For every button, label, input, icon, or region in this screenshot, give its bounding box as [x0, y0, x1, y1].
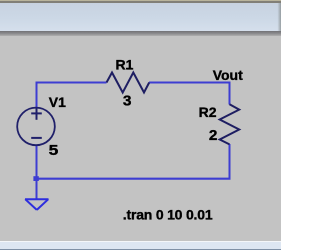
V1 plus sign vertical bar [36, 108, 38, 120]
window title bar [0, 3, 281, 31]
resistor R1 zigzag body [107, 73, 150, 93]
toolbar bottom shadow band [0, 31, 281, 36]
V1 plus sign horizontal bar [31, 112, 42, 114]
ground symbol [25, 199, 49, 210]
status bar top highlight [0, 241, 281, 242]
svg-text:V1: V1 [49, 94, 66, 110]
voltage source V1 circle [17, 108, 55, 146]
V1 minus sign [31, 137, 42, 139]
wire: top horizontal right segment (R1 right lead to Vout corner) [149, 82, 231, 84]
svg-text:3: 3 [123, 93, 132, 110]
svg-text:.tran 0 10 0.01: .tran 0 10 0.01 [123, 207, 213, 223]
resistor R2 zigzag body [220, 104, 240, 144]
junction node at ground tap [33, 176, 38, 181]
wire: top horizontal left segment (V1 top to R1 left lead) [37, 82, 107, 84]
svg-text:R1: R1 [116, 56, 134, 72]
svg-text:5: 5 [49, 142, 59, 159]
svg-text:2: 2 [209, 127, 218, 144]
wire: right vertical from Vout corner to R2 top [229, 82, 231, 105]
status bar bottom edge [0, 249, 281, 250]
window title bar top edge line [0, 0, 281, 1]
window title bar dark edge [0, 1, 281, 3]
wire: left vertical from top corner down to V1 plus terminal [36, 82, 38, 109]
wire: left vertical from V1 bottom to ground junction [36, 145, 38, 199]
svg-text:Vout: Vout [213, 67, 243, 83]
svg-text:R2: R2 [199, 104, 217, 120]
status bar [0, 242, 281, 249]
wire: right vertical from R2 bottom to bottom corner [229, 144, 231, 180]
wire: bottom horizontal (ground junction to right corner) [37, 178, 231, 180]
